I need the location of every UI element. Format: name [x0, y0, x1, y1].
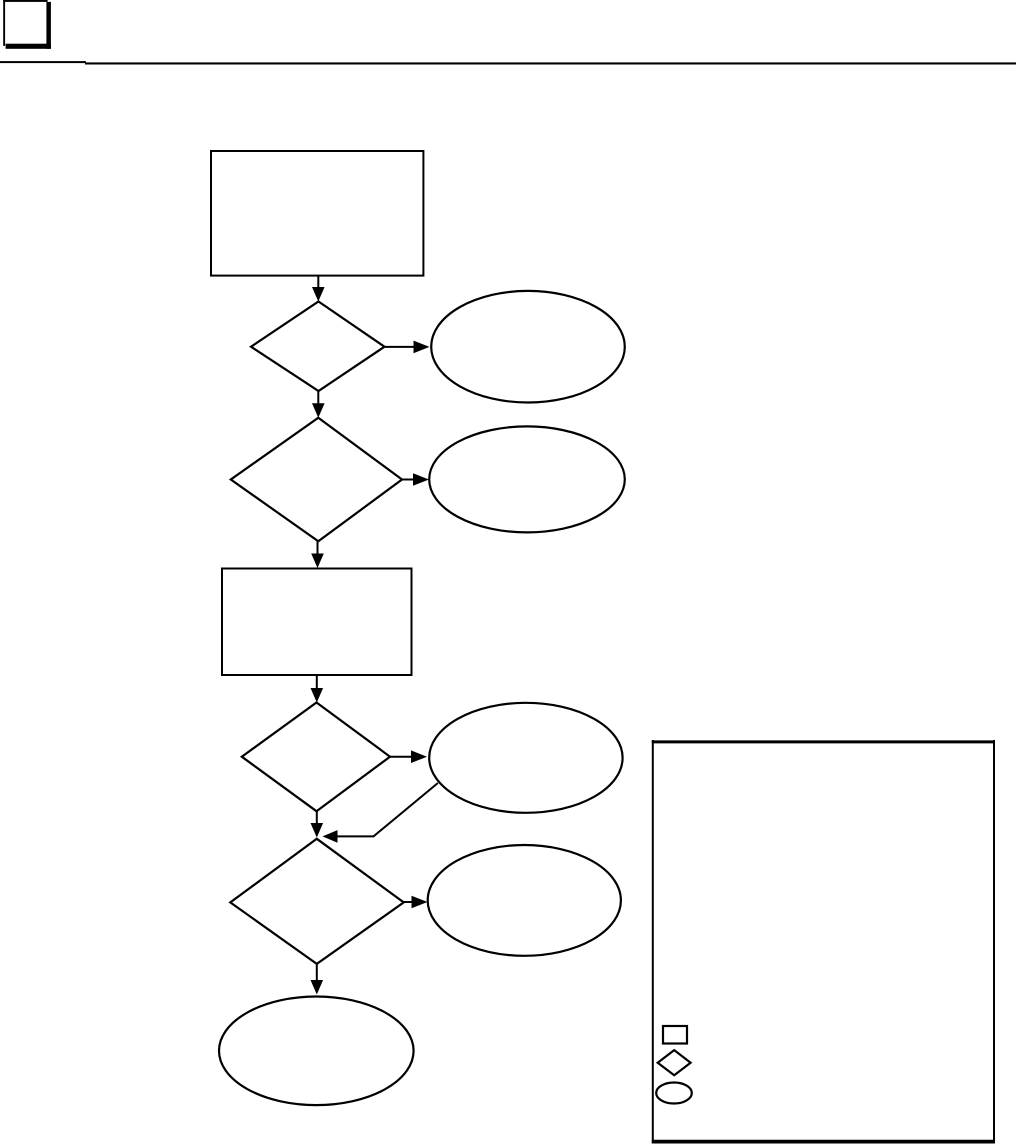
process box 2	[222, 569, 412, 676]
arrowhead right into ellipse4	[412, 896, 428, 909]
process box 1	[211, 151, 423, 276]
feedback wire ellipse3 to diamond4 (diagonal + horizontal)	[336, 783, 438, 836]
wire diamond3 to diamond4	[316, 811, 318, 824]
arrowhead down into rect2	[311, 554, 324, 569]
decision diamond 3	[242, 703, 390, 812]
decision diamond 2	[231, 418, 402, 542]
arrowhead down into ellipse5	[311, 980, 324, 995]
wire diamond2 to ellipse2	[402, 479, 414, 481]
header rule right segment	[85, 62, 1016, 64]
header rule left segment	[0, 61, 86, 63]
wire rect2 to diamond3	[316, 675, 318, 689]
terminal ellipse 4	[428, 845, 621, 956]
terminal ellipse 2	[429, 426, 625, 532]
arrowhead down into diamond1	[312, 287, 325, 302]
wire diamond3 to ellipse3	[390, 756, 412, 758]
wire rect1 to diamond1	[317, 276, 319, 289]
arrowhead down into diamond3	[311, 688, 324, 703]
terminal ellipse 1	[431, 291, 625, 403]
arrowhead right into ellipse2	[413, 473, 429, 486]
arrowhead right into ellipse3	[411, 750, 427, 763]
decision diamond 4	[230, 839, 403, 964]
arrowhead right into ellipse1	[414, 341, 430, 354]
terminal ellipse 5	[219, 997, 414, 1106]
arrowhead down into diamond4	[311, 823, 324, 838]
terminal ellipse 3	[429, 703, 622, 813]
wire diamond2 to rect2	[317, 541, 319, 554]
chapter icon box (top-left shadowed square)	[3, 0, 51, 49]
arrowhead left into spine	[323, 830, 338, 843]
wire diamond1 to diamond2	[317, 391, 319, 404]
arrowhead down into diamond2	[312, 403, 325, 418]
legend diamond symbol	[658, 1050, 691, 1075]
wire diamond1 to ellipse1	[385, 346, 414, 348]
legend square symbol	[663, 1026, 687, 1044]
wire diamond4 to ellipse4	[404, 901, 413, 903]
legend ellipse symbol	[656, 1083, 692, 1104]
legend box	[652, 740, 995, 1143]
wire diamond4 to ellipse5	[316, 964, 318, 981]
decision diamond 1	[251, 302, 385, 392]
